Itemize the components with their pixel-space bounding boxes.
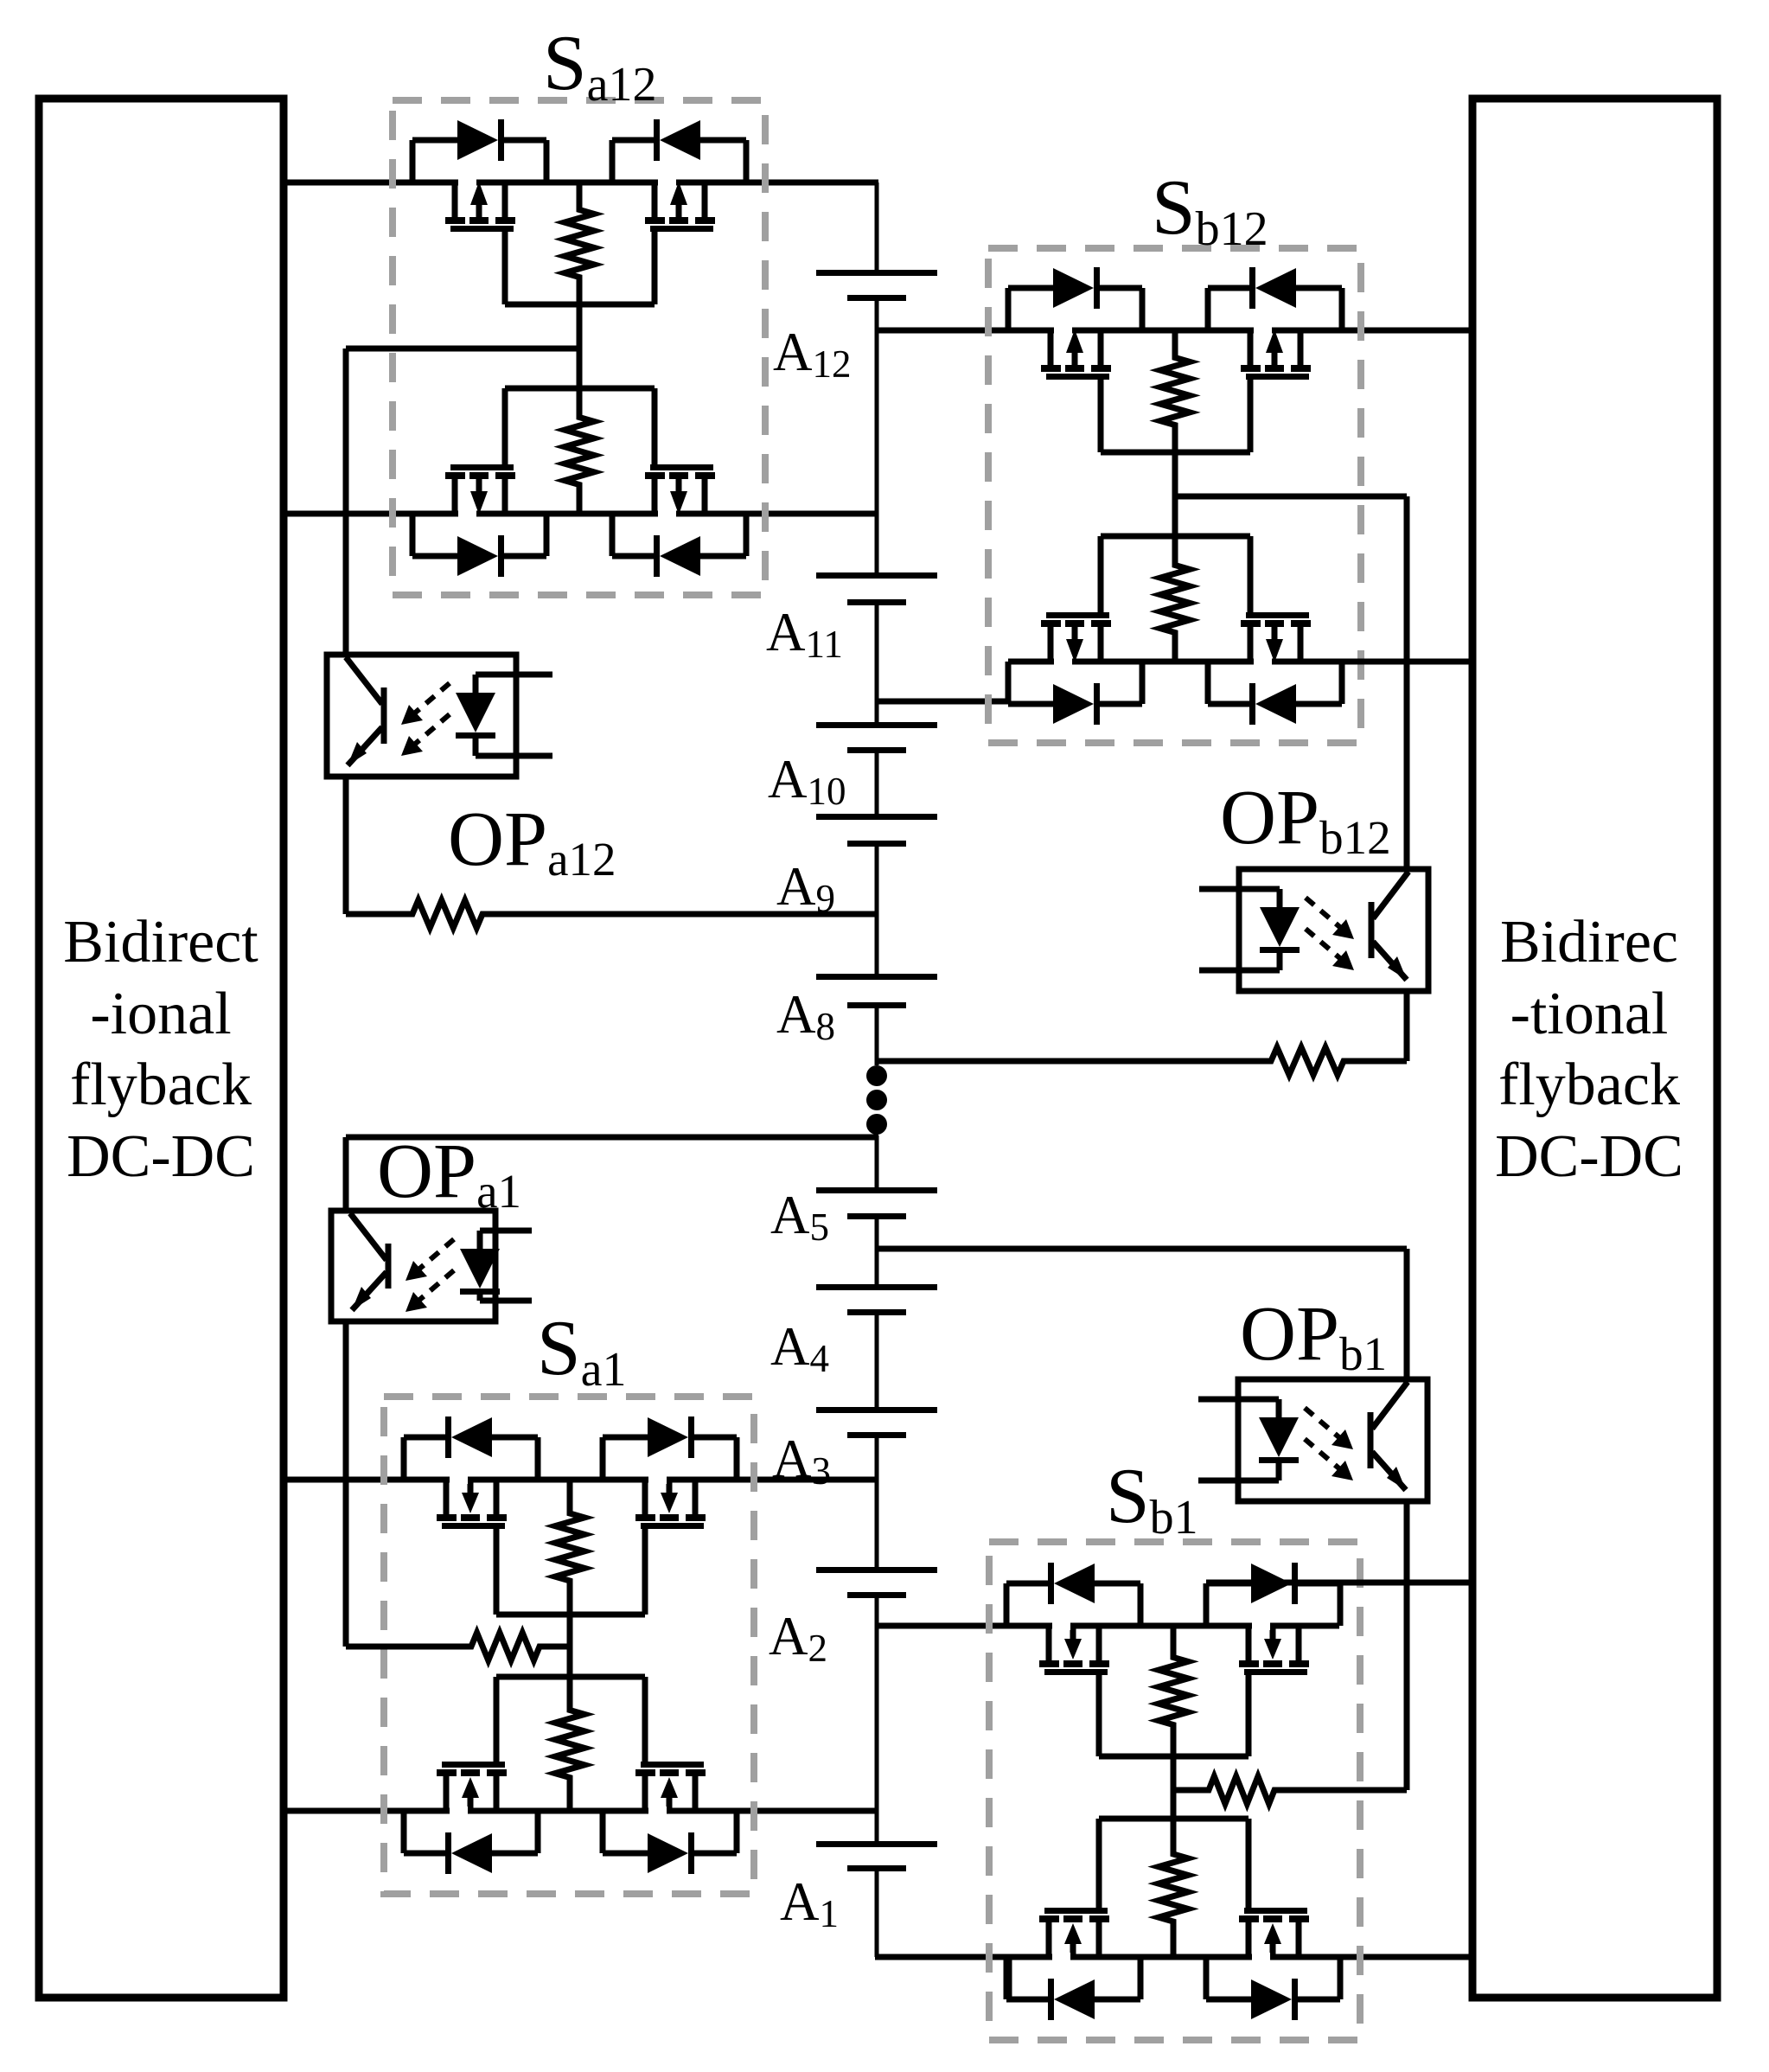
- wire: node below A8 to OPb12 emitter resistor: [875, 1047, 1407, 1075]
- Sa1 body diode of lower-right MOSFET: [600, 1811, 606, 1853]
- Sb1 centre gate node wire: [1171, 1756, 1177, 1819]
- svg-text:-ional: -ional: [90, 981, 231, 1047]
- battery string bus wire segment 5: [875, 843, 879, 976]
- Sb12 upper gate joining bar: [1101, 450, 1250, 456]
- Sb12 upper-left MOSFET: [1048, 330, 1054, 365]
- Sb1 lower-right MOSFET: [1246, 1922, 1252, 1957]
- wire with resistor: OPa1 emitter to Sa1 gate node: [346, 1633, 570, 1660]
- OPb1 light arrows: [1305, 1408, 1341, 1439]
- optocoupler OPb1 package box: [1238, 1379, 1427, 1501]
- OPa12 phototransistor: [381, 687, 387, 744]
- OPa1 LED terminal stubs: [480, 1228, 532, 1234]
- jog wire joining Sb12 bottom rail to battery wire: [1006, 662, 1012, 701]
- OPa12 light arrows: [413, 683, 450, 714]
- switch Sb1 dashed outline box: [989, 1542, 1360, 2040]
- wire: OPa1 collector up to node above A5: [343, 1137, 349, 1211]
- Sa1 body diode of upper-right MOSFET: [600, 1437, 606, 1480]
- Sa1 upper gate joining bar: [496, 1612, 645, 1618]
- wire: node A5/A4 to OPb1 collector: [875, 1246, 1407, 1252]
- wire: OPb1 collector up to node A5/A4 wire: [1404, 1249, 1410, 1379]
- Sb12 lower-left MOSFET: [1048, 627, 1054, 662]
- wire: Sb12 gate node to OPb12 collector: [1175, 494, 1407, 500]
- Sb12 lower-right MOSFET: [1248, 627, 1254, 662]
- Sa12 body diode of upper-left MOSFET: [410, 140, 416, 182]
- battery string bus wire segment 1: [875, 182, 879, 272]
- Sa1 lower-left MOSFET: [444, 1776, 450, 1811]
- Sa12 upper gate joining bar: [505, 302, 655, 308]
- OPb12 light arrows: [1306, 898, 1342, 929]
- wire: node A12/A11 to left converter (Sa12 bottom rail): [284, 511, 878, 517]
- Sa12 centre gate node wire: [577, 304, 583, 388]
- OPb1 LED: [1276, 1399, 1282, 1417]
- Sa1 centre gate node wire: [567, 1615, 573, 1677]
- wire: OPa1 collector to node above A5: [346, 1135, 878, 1141]
- wire: Sb12 bottom rail to right converter: [1008, 659, 1472, 665]
- right converter label text: [1495, 909, 1683, 1190]
- battery cell A8: [816, 974, 937, 980]
- battery cell A9: [816, 814, 937, 820]
- wire: left converter to Sa12 top rail (node above A12): [284, 180, 878, 186]
- battery string bus wire segment 11: [875, 1595, 879, 1844]
- OPa1 LED: [477, 1231, 483, 1249]
- wire: OPa12 emitter resistor to node A9/A8: [346, 900, 878, 928]
- Sa1 body diode of upper-left MOSFET: [401, 1437, 407, 1480]
- switch Sb12 dashed outline box: [988, 248, 1361, 743]
- Sb1 body diode of lower-right MOSFET: [1204, 1957, 1210, 1999]
- Sb1 lower-left MOSFET: [1046, 1922, 1052, 1957]
- OPa12 LED: [473, 675, 479, 693]
- wire with resistor: Sb1 gate node to OPb1 emitter: [1173, 1776, 1407, 1804]
- Sb1 upper-right MOSFET: [1246, 1626, 1252, 1660]
- svg-text:DC-DC: DC-DC: [1495, 1123, 1683, 1190]
- Sb1 body diode of lower-left MOSFET: [1004, 1957, 1010, 1999]
- Sb1 body diode of upper-right MOSFET: [1204, 1583, 1210, 1626]
- jog wire joining Sb1 bottom rail to lower diode loop: [1006, 1957, 1012, 1998]
- Sb12 lower gate joining bar: [1101, 534, 1250, 540]
- OPb12 LED: [1277, 889, 1283, 907]
- Sb1 lower gate joining bar: [1099, 1816, 1249, 1822]
- battery string bus wire segment 4: [875, 750, 879, 816]
- Sb1 upper-left MOSFET: [1046, 1626, 1052, 1660]
- OPb1 phototransistor: [1368, 1412, 1374, 1468]
- battery cell A12: [816, 270, 937, 276]
- svg-text:flyback: flyback: [70, 1052, 252, 1118]
- Sa1 lower-right MOSFET: [642, 1776, 648, 1811]
- OPa12 LED terminal stubs: [476, 672, 552, 678]
- battery string bus wire segment 2: [875, 297, 879, 575]
- Sb1 upper gate joining bar: [1099, 1754, 1249, 1760]
- battery cell A5: [816, 1187, 937, 1193]
- rail gaps at Sb12 MOSFET body arrows: [1054, 326, 1072, 335]
- svg-text:-tional: -tional: [1510, 981, 1669, 1047]
- wire: node below A1 to Sb1 bottom rail and right converter: [875, 1954, 1472, 1960]
- svg-text:Bidirec: Bidirec: [1500, 909, 1678, 975]
- wire: left converter to Sa1 top rail (node A3/A2): [284, 1477, 878, 1483]
- wire: Sb1 upper diode rail to right converter: [1206, 1580, 1472, 1586]
- battery cell A1: [816, 1841, 937, 1847]
- rail gaps at Sb1 MOSFET body arrows: [1052, 1621, 1070, 1630]
- wire: OPa1 emitter down to gate resistor wire: [343, 1321, 349, 1647]
- switch Sa12 dashed outline box: [393, 100, 765, 595]
- svg-text:Bidirect: Bidirect: [63, 909, 259, 975]
- Sa1 lower gate joining bar: [496, 1674, 645, 1680]
- battery string bus wire segment 3: [875, 602, 879, 725]
- optocoupler OPa1 package box: [331, 1211, 495, 1321]
- Sb12 body diode of lower-left MOSFET: [1006, 662, 1012, 704]
- wire: OPb12 emitter down to resistor wire: [1404, 991, 1410, 1061]
- Sb12 centre gate node wire: [1172, 452, 1178, 536]
- Sb12 upper gate resistor: [1160, 330, 1190, 452]
- OPb12 LED terminal stubs: [1199, 886, 1280, 892]
- OPb12 phototransistor: [1369, 902, 1375, 958]
- svg-text:DC-DC: DC-DC: [67, 1123, 255, 1190]
- rail gaps at Sa1 MOSFET body arrows: [450, 1475, 468, 1484]
- Sa12 upper-right MOSFET: [652, 182, 658, 217]
- svg-text:flyback: flyback: [1498, 1052, 1680, 1118]
- Sa1 upper-left MOSFET: [444, 1480, 450, 1514]
- battery string bus wire segment 8: [875, 1216, 879, 1287]
- Sa1 upper-right MOSFET: [642, 1480, 648, 1514]
- battery cell A2: [816, 1567, 937, 1573]
- Sb1 upper gate resistor: [1159, 1626, 1188, 1756]
- wire: OPb1 emitter down to gate resistor wire: [1404, 1501, 1410, 1790]
- battery cell A10: [816, 722, 937, 728]
- battery cell A3: [816, 1407, 937, 1413]
- battery string bus wire segment 9: [875, 1312, 879, 1410]
- Sa12 upper-left MOSFET: [452, 182, 458, 217]
- OPa1 phototransistor: [386, 1244, 392, 1289]
- wire: OPa12 collector up to Sa12 gate tap: [343, 349, 349, 655]
- wire: left converter to Sa1 bottom rail (node above A1): [284, 1808, 878, 1814]
- left converter label text: [63, 909, 259, 1190]
- Sa12 lower-right MOSFET: [652, 479, 658, 514]
- Sa1 upper gate resistor: [555, 1480, 584, 1615]
- wire: Sa12 gate node to OPa12 collector: [346, 346, 579, 352]
- Sb1 lower gate resistor: [1159, 1819, 1188, 1957]
- battery cell A11: [816, 572, 937, 579]
- Sa12 body diode of upper-right MOSFET: [610, 140, 616, 182]
- wire: node A11/A10 to Sb12 lower diode rail: [875, 699, 1008, 705]
- Sb12 upper-right MOSFET: [1248, 330, 1254, 365]
- battery string bus wire segment 6: [875, 1005, 879, 1065]
- optocoupler OPb12 package box: [1239, 869, 1428, 991]
- battery cell A4: [816, 1284, 937, 1290]
- wire: OPa12 emitter down to resistor wire: [343, 777, 349, 914]
- battery string bus wire segment 10: [875, 1435, 879, 1570]
- Sa12 lower gate resistor: [565, 388, 594, 514]
- Sb12 body diode of upper-right MOSFET: [1205, 288, 1211, 330]
- Sb1 body diode of upper-left MOSFET: [1004, 1583, 1010, 1626]
- Sb12 body diode of lower-right MOSFET: [1205, 662, 1211, 704]
- Sa12 body diode of lower-right MOSFET: [610, 514, 616, 556]
- optocoupler OPa12 package box: [327, 655, 516, 777]
- wire: node A2/A1 to Sb1 top rail: [875, 1623, 1339, 1629]
- OPa1 light arrows: [418, 1239, 454, 1270]
- battery string bus wire segment 7: [875, 1135, 879, 1190]
- Sb12 body diode of upper-left MOSFET: [1006, 288, 1012, 330]
- Sa12 body diode of lower-left MOSFET: [410, 514, 416, 556]
- battery string bus wire segment 12: [875, 1868, 879, 1957]
- Sa12 lower-left MOSFET: [452, 479, 458, 514]
- switch Sa1 dashed outline box: [384, 1397, 754, 1894]
- ellipsis dots between A8 and A5: [866, 1065, 887, 1086]
- Sa1 lower gate resistor: [555, 1677, 584, 1811]
- wire: node below A12 to Sb12 top rail: [875, 328, 1472, 334]
- Sa12 lower gate joining bar: [505, 386, 655, 392]
- Sb12 lower gate resistor: [1160, 536, 1190, 662]
- OPb1 LED terminal stubs: [1198, 1397, 1279, 1403]
- rail gaps at Sa12 MOSFET body arrows: [458, 178, 476, 187]
- Sa1 body diode of lower-left MOSFET: [401, 1811, 407, 1853]
- wire: OPb12 collector up to Sb12 gate tap: [1404, 496, 1410, 869]
- left bidirectional flyback DC-DC converter block: [39, 99, 284, 1998]
- Sa12 upper gate resistor: [565, 182, 594, 304]
- right bidirectional flyback DC-DC converter block: [1472, 99, 1717, 1998]
